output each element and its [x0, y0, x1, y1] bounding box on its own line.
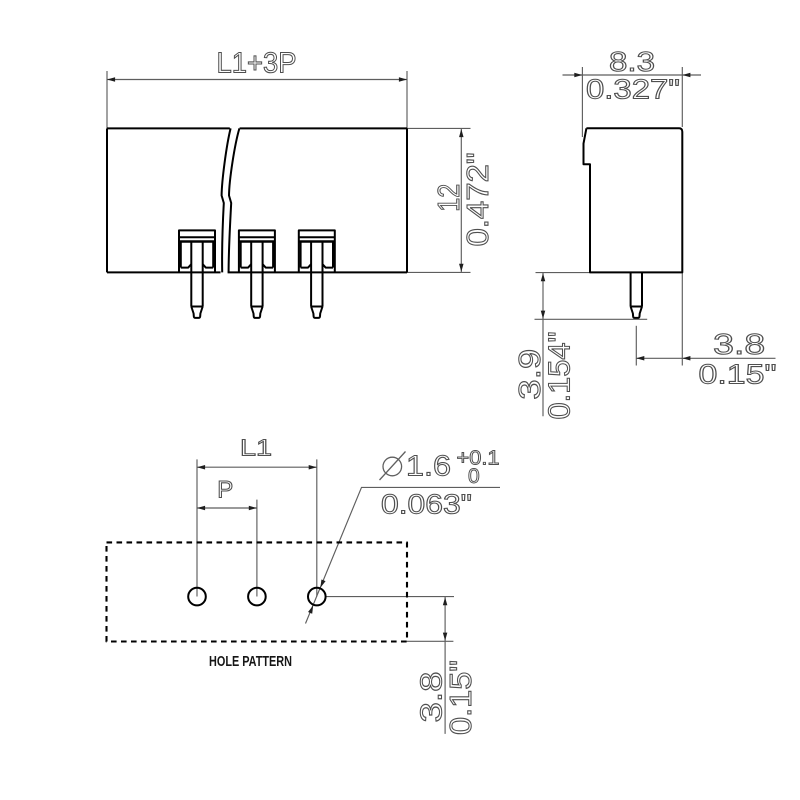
svg-text:8.3: 8.3	[609, 46, 655, 77]
svg-text:1.6: 1.6	[406, 451, 451, 483]
svg-text:L1+3P: L1+3P	[217, 48, 297, 80]
svg-text:0.472": 0.472"	[461, 153, 495, 247]
svg-text:3.8: 3.8	[713, 329, 765, 361]
svg-text:P: P	[217, 477, 233, 504]
svg-text:0.15": 0.15"	[699, 359, 777, 390]
svg-text:0.063": 0.063"	[381, 488, 472, 519]
svg-text:L1: L1	[240, 435, 272, 461]
svg-text:0.15": 0.15"	[444, 660, 478, 735]
svg-text:0: 0	[468, 465, 480, 488]
svg-text:0.154": 0.154"	[543, 332, 577, 420]
svg-text:0.327": 0.327"	[586, 74, 680, 105]
svg-text:HOLE PATTERN: HOLE PATTERN	[209, 654, 292, 670]
